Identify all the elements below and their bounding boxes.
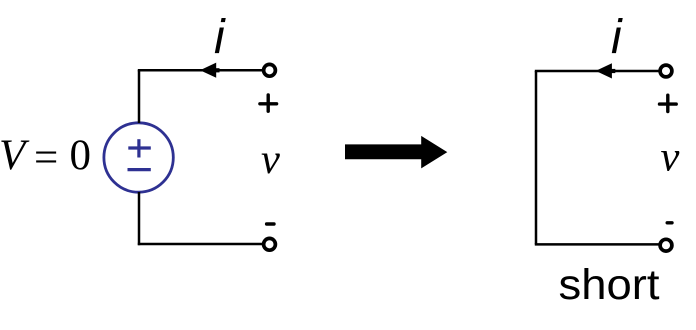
svg-text:0: 0 [70, 132, 92, 179]
label - (left) [267, 222, 274, 225]
label + (right) [660, 95, 677, 111]
terminal left bottom [264, 238, 276, 250]
svg-text:i: i [214, 11, 226, 64]
wire right bottom horizontal [535, 243, 659, 246]
voltage source U1 (V=0) [104, 123, 173, 192]
big implication arrow [345, 136, 447, 169]
wire right vertical [535, 71, 538, 244]
svg-text:short: short [559, 261, 660, 309]
label V = 0 [0, 132, 91, 182]
wire right top horizontal [535, 70, 659, 73]
wire left bottom horizontal [138, 243, 263, 246]
svg-text:v: v [261, 136, 280, 183]
terminal right bottom [660, 239, 672, 251]
svg-text:V: V [0, 132, 30, 179]
svg-text:v: v [661, 134, 680, 181]
label - (right) [667, 221, 672, 224]
current arrow left circuit [200, 63, 220, 78]
svg-text:i: i [611, 11, 623, 64]
label + (left) [260, 95, 277, 111]
current arrow right circuit [596, 63, 616, 78]
wire left-bottom vertical [138, 192, 141, 245]
wire left-top vertical [138, 70, 141, 123]
terminal right top [660, 65, 672, 77]
svg-text:=: = [34, 135, 58, 182]
terminal left top [264, 64, 276, 76]
wire left top horizontal [138, 69, 263, 72]
